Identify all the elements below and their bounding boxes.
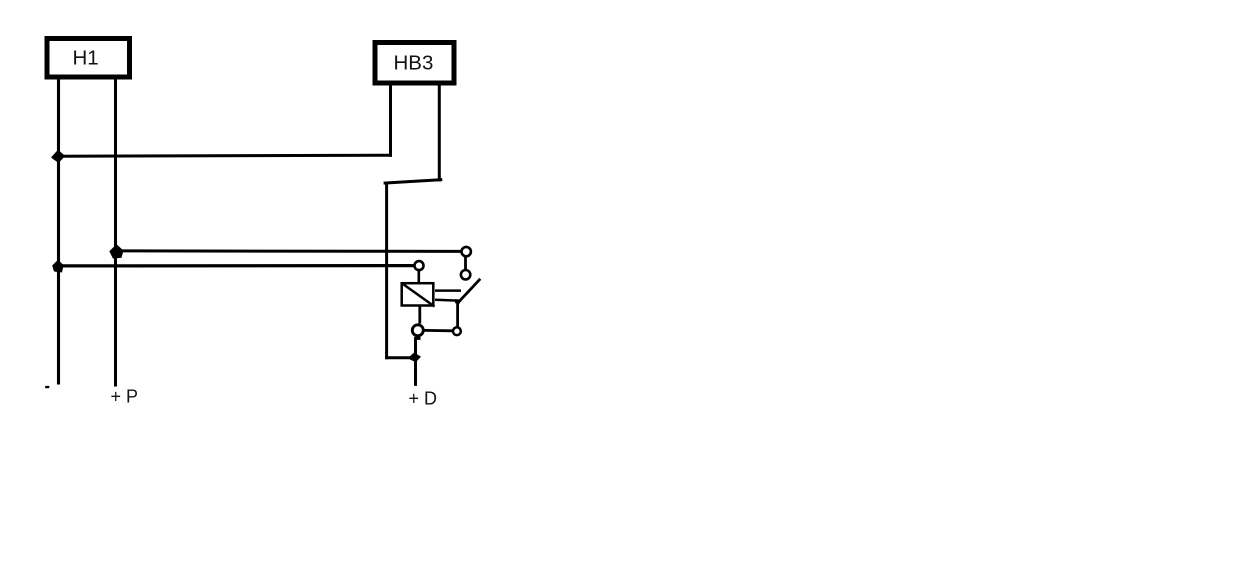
wire horizontal into junction D (y=357.8): [385, 356, 415, 359]
terminal circle end of wire B (relay coil top): [415, 261, 424, 270]
wire HB3 left leg (x=390.5): [389, 86, 392, 157]
wire B: H1 left leg to relay coil terminal (y=265.8): [57, 264, 414, 267]
wire link between upper terminal pair: [464, 257, 467, 270]
wire terminal to relay coil top: [417, 271, 420, 283]
svg-text:+ D: + D: [409, 389, 438, 409]
junction dot on right leg at wire A: [109, 244, 123, 258]
wire H1 right leg (x=115.5, +P terminal): [114, 80, 117, 387]
wire coil bottom stub: [418, 307, 421, 324]
wire sloped jog below HB3 right leg: [384, 180, 443, 184]
wire connecting the two bottom terminals (y=330.4): [425, 329, 453, 332]
component box HB3: [375, 43, 454, 84]
relay lever (moving contact): [457, 279, 480, 304]
terminal circle lower of upper pair: [461, 270, 470, 279]
wire horizontal from junction A to HB3 left leg (y=155.6): [57, 155, 392, 156]
label - (minus terminal): [45, 386, 49, 388]
wire big terminal down to +D junction and terminal end: [416, 337, 420, 386]
junction blob at switch pivot: [455, 299, 462, 304]
svg-text:HB3: HB3: [394, 52, 434, 75]
junction dot at +D node: [408, 353, 422, 363]
wire A: H1 right leg to upper switch terminal (y=250.9): [115, 249, 461, 253]
wire pivot down to lower-right terminal: [456, 302, 459, 327]
terminal circle upper (end of wire A): [462, 247, 471, 256]
wire HB3 right leg (x=439.3): [438, 86, 441, 182]
relay pivot link line (y=300.3): [435, 300, 461, 301]
svg-text:+ P: + P: [111, 387, 139, 407]
junction dot on left leg at wire B: [52, 260, 63, 273]
svg-text:H1: H1: [73, 47, 99, 70]
component box H1: [47, 39, 130, 78]
terminal circle lower-right of switch: [453, 327, 461, 335]
relay coil box with diagonal: [402, 283, 435, 307]
relay fixed contact line (y=290.5): [435, 289, 461, 292]
junction dot on left leg at wire to HB3: [51, 150, 65, 163]
wire vertical drop to +D net (x=386.6): [385, 182, 388, 359]
wire H1 left leg (x=58.6): [57, 80, 60, 385]
terminal circle big (coil bottom): [412, 325, 423, 336]
